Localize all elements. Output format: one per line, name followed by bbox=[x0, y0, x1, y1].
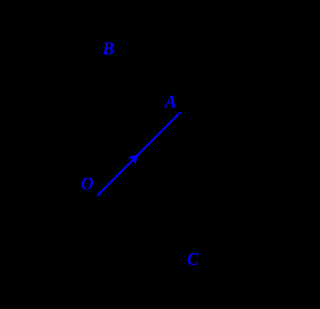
wire bbox=[97, 112, 181, 196]
arrowhead mid-vector bbox=[128, 154, 140, 165]
svg-text:B: B bbox=[102, 39, 115, 59]
svg-text:O: O bbox=[81, 174, 94, 194]
svg-text:A: A bbox=[164, 92, 177, 112]
svg-text:C: C bbox=[187, 249, 199, 269]
